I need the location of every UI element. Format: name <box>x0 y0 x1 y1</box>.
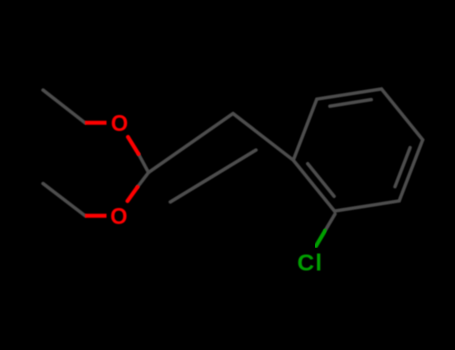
svg-text:l: l <box>315 250 322 276</box>
svg-text:O: O <box>111 110 128 136</box>
svg-text:C: C <box>297 250 314 276</box>
svg-text:O: O <box>110 203 127 229</box>
